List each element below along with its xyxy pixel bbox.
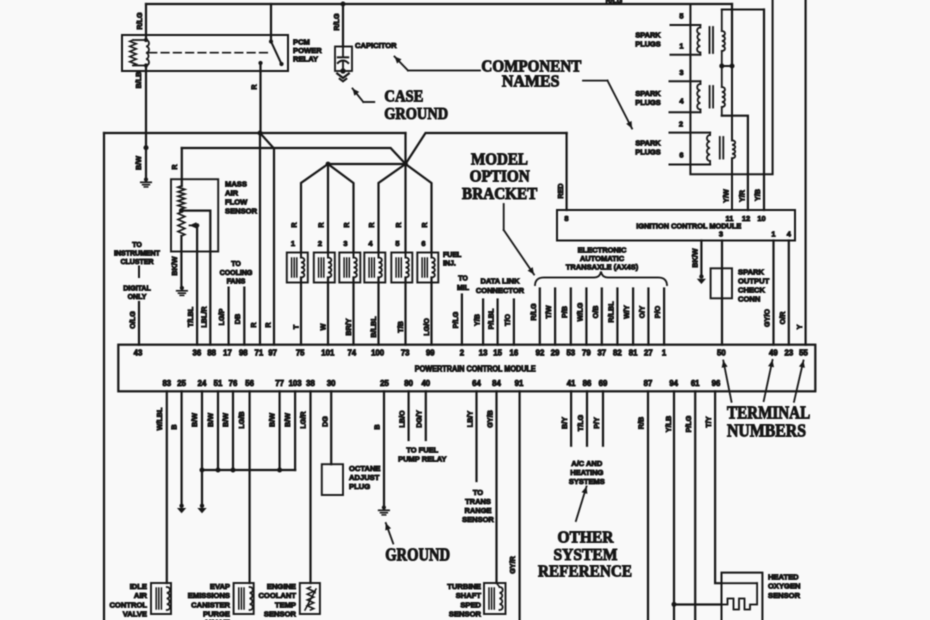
svg-text:40: 40 bbox=[421, 379, 430, 388]
label R relay output bbox=[250, 84, 259, 90]
label SPARK PLUGS 3 bbox=[635, 139, 661, 157]
svg-text:TO: TO bbox=[132, 242, 142, 249]
label T bbox=[292, 324, 301, 329]
label T/LG bbox=[576, 414, 585, 431]
label R injector 1 bbox=[290, 222, 299, 228]
label TO MIL bbox=[457, 276, 470, 292]
svg-text:79: 79 bbox=[582, 349, 591, 358]
svg-text:Y: Y bbox=[795, 324, 804, 329]
label SPARK PLUGS 1 bbox=[635, 31, 661, 49]
label 2 bbox=[679, 119, 683, 128]
svg-text:82: 82 bbox=[613, 349, 622, 358]
label SPARK PLUGS 2 bbox=[635, 89, 661, 107]
wire BK/W MAF to ground bbox=[180, 236, 182, 288]
wire W/Y transaxle to PCM bbox=[632, 289, 634, 345]
label CAPICITOR bbox=[355, 41, 397, 50]
svg-text:R: R bbox=[367, 222, 376, 228]
label R MAF bbox=[170, 164, 179, 170]
svg-text:MIL: MIL bbox=[457, 285, 470, 292]
svg-text:A/C AND: A/C AND bbox=[571, 459, 603, 468]
svg-text:64: 64 bbox=[472, 379, 481, 388]
svg-text:1: 1 bbox=[771, 229, 775, 238]
MAF sensor box bbox=[171, 179, 218, 251]
octane adjust plug box bbox=[322, 464, 343, 495]
svg-text:5: 5 bbox=[395, 239, 399, 248]
ground MAF ground bbox=[177, 286, 187, 296]
svg-text:94: 94 bbox=[669, 379, 678, 388]
svg-text:FANS: FANS bbox=[227, 279, 246, 286]
label SPARK OUTPUT CHECK CONN bbox=[738, 268, 770, 304]
svg-text:PLUG: PLUG bbox=[349, 482, 370, 491]
svg-text:SPARK: SPARK bbox=[738, 268, 765, 277]
svg-text:NUMBERS: NUMBERS bbox=[727, 421, 806, 441]
svg-text:15: 15 bbox=[493, 349, 502, 358]
svg-text:P/B: P/B bbox=[560, 306, 569, 318]
svg-text:P/O: P/O bbox=[653, 305, 662, 318]
annotation GROUND bbox=[385, 545, 450, 565]
wire P/LBL to PCM 15 bbox=[497, 300, 499, 345]
svg-text:56: 56 bbox=[245, 379, 254, 388]
svg-text:SPARK: SPARK bbox=[635, 89, 661, 98]
svg-text:ADJUST: ADJUST bbox=[349, 473, 380, 482]
svg-text:3: 3 bbox=[343, 239, 347, 248]
label R/B bbox=[637, 417, 646, 429]
wire B/W PCM 103 bbox=[294, 391, 296, 470]
svg-text:CLUSTER: CLUSTER bbox=[120, 259, 153, 266]
svg-text:88: 88 bbox=[207, 349, 216, 358]
label R/LG relay coil wire bbox=[135, 12, 144, 30]
svg-text:OCTANE: OCTANE bbox=[349, 464, 381, 473]
wire ICM pin 3 to PCM 50 bbox=[721, 241, 723, 345]
svg-text:TERMINAL: TERMINAL bbox=[727, 402, 810, 422]
wire R MAF feed bbox=[182, 148, 406, 164]
EVAP solenoid bbox=[239, 587, 253, 610]
label HEATED OXYGEN SENSOR bbox=[768, 573, 801, 600]
fuel injector 4 solenoid bbox=[369, 258, 382, 278]
svg-text:77: 77 bbox=[275, 379, 284, 388]
label LBL/R bbox=[200, 306, 209, 328]
svg-text:W/Y: W/Y bbox=[622, 305, 631, 319]
svg-text:T/Y: T/Y bbox=[704, 416, 713, 427]
svg-text:AIR: AIR bbox=[225, 189, 239, 198]
svg-text:3: 3 bbox=[719, 229, 723, 238]
HO2S heater element bbox=[722, 583, 758, 609]
idle air control valve box bbox=[151, 583, 171, 614]
svg-text:DB: DB bbox=[233, 314, 242, 324]
svg-text:11: 11 bbox=[726, 214, 734, 223]
svg-text:DATA LINK: DATA LINK bbox=[480, 277, 520, 286]
svg-text:2: 2 bbox=[318, 239, 322, 248]
svg-text:61: 61 bbox=[691, 379, 700, 388]
svg-text:T/LG: T/LG bbox=[576, 414, 585, 431]
svg-text:ONLY: ONLY bbox=[128, 294, 147, 301]
svg-text:W/LBL: W/LBL bbox=[155, 407, 164, 430]
svg-text:O/B: O/B bbox=[591, 306, 600, 319]
svg-text:OUTPUT: OUTPUT bbox=[738, 277, 770, 286]
svg-text:R: R bbox=[249, 322, 258, 328]
label P/LG (61) bbox=[684, 415, 693, 432]
spark output check connector box bbox=[711, 268, 732, 298]
label Y/B bbox=[753, 189, 762, 201]
wire GY/R PCM 91 bbox=[518, 391, 520, 620]
svg-text:B/Y: B/Y bbox=[560, 417, 569, 429]
svg-text:SENSOR: SENSOR bbox=[462, 515, 494, 524]
pointer to transaxle brace bbox=[504, 204, 534, 275]
wire O/B transaxle to PCM bbox=[601, 289, 603, 345]
coil 1 primary winding bbox=[697, 25, 700, 55]
label B/LBL bbox=[369, 316, 378, 338]
svg-text:DIGITAL: DIGITAL bbox=[123, 285, 151, 292]
wire Y/B coil secondary to ICM pin 10 bbox=[763, 10, 765, 211]
svg-text:TO FUEL: TO FUEL bbox=[406, 446, 438, 455]
svg-text:P/LBL: P/LBL bbox=[487, 308, 496, 329]
svg-text:73: 73 bbox=[401, 349, 410, 358]
svg-text:B/W: B/W bbox=[268, 413, 277, 427]
svg-text:FUEL: FUEL bbox=[443, 252, 462, 259]
svg-text:LG/R: LG/R bbox=[299, 411, 308, 429]
wire R/B PCM 87 bbox=[647, 391, 649, 620]
svg-text:HEATING: HEATING bbox=[570, 468, 603, 477]
label Y/LB bbox=[664, 416, 673, 432]
label DATA LINK CONNECTOR bbox=[476, 277, 525, 295]
svg-text:2: 2 bbox=[460, 349, 465, 358]
label 12 bbox=[742, 214, 750, 223]
label B/W (76) bbox=[221, 413, 230, 427]
svg-text:83: 83 bbox=[162, 379, 171, 388]
fuel injector 6 box bbox=[417, 253, 438, 283]
label IDLE AIR CONTROL VALVE bbox=[109, 582, 147, 619]
wire O/Y transaxle to PCM bbox=[647, 289, 649, 345]
ignition control module U1 box bbox=[557, 210, 795, 241]
wire R relay output bbox=[259, 63, 261, 133]
svg-text:99: 99 bbox=[426, 349, 435, 358]
label R injector 6 bbox=[420, 222, 429, 228]
svg-text:41: 41 bbox=[567, 379, 576, 388]
node coil bus junction right bbox=[730, 64, 735, 69]
spark plug stub 4 bbox=[670, 111, 701, 113]
label P/LBL bbox=[487, 308, 496, 329]
label 3 ICM bbox=[719, 229, 723, 238]
svg-text:13: 13 bbox=[479, 349, 488, 358]
label 6 bbox=[679, 151, 683, 160]
pointer to terminal 49 bbox=[764, 360, 774, 401]
label R/LG bbox=[529, 303, 538, 321]
svg-text:12: 12 bbox=[742, 214, 750, 223]
svg-text:EMISSIONS: EMISSIONS bbox=[188, 591, 230, 600]
annotation MODEL OPTION BRACKET bbox=[462, 150, 537, 204]
svg-text:75: 75 bbox=[296, 349, 305, 358]
svg-text:ENGINE: ENGINE bbox=[267, 582, 296, 591]
label Y/B (13) bbox=[473, 314, 482, 326]
svg-text:23: 23 bbox=[785, 349, 794, 358]
TSS coil bbox=[489, 583, 503, 610]
transaxle brace bbox=[535, 272, 667, 286]
wire LG/B PCM 56 to EVAP bbox=[249, 391, 251, 583]
annotation COMPONENT NAMES bbox=[481, 57, 581, 91]
label B (25) bbox=[170, 424, 179, 429]
svg-text:AIR: AIR bbox=[134, 591, 148, 600]
label O/B bbox=[591, 306, 600, 319]
label LB/Y bbox=[466, 411, 475, 428]
svg-text:B/W: B/W bbox=[283, 413, 292, 427]
wire P/B transaxle to PCM bbox=[570, 289, 572, 345]
label R injector 3 bbox=[342, 222, 351, 228]
svg-text:Y/LB: Y/LB bbox=[664, 416, 673, 432]
wire T/LBL MAF wiper to PCM 36 bbox=[196, 225, 198, 344]
wire DG PCM 30 to octane plug bbox=[330, 391, 332, 464]
heated oxygen sensor box bbox=[722, 573, 763, 620]
label TO FUEL PUMP RELAY bbox=[398, 446, 446, 464]
fuel injector 1 box bbox=[287, 253, 308, 283]
label 4 injector number bbox=[368, 239, 373, 248]
ground arrow ICM bbox=[697, 274, 706, 284]
wire LB/Y PCM 64 bbox=[475, 391, 477, 481]
label RED bbox=[556, 183, 565, 198]
ground capacitor case ground bbox=[337, 74, 349, 82]
svg-text:PLUGS: PLUGS bbox=[635, 148, 661, 157]
svg-text:B/LB: B/LB bbox=[134, 72, 143, 89]
svg-text:T/LBL: T/LBL bbox=[186, 306, 195, 327]
wire injector 2 feed bbox=[327, 164, 329, 253]
svg-text:FLOW: FLOW bbox=[225, 198, 248, 207]
coil 1 core bbox=[710, 27, 714, 53]
svg-text:80: 80 bbox=[404, 379, 413, 388]
svg-text:LG/P: LG/P bbox=[217, 308, 226, 325]
svg-text:SPARK: SPARK bbox=[635, 139, 661, 148]
svg-text:OTHER: OTHER bbox=[558, 528, 615, 547]
pointer to A/C systems bbox=[576, 487, 588, 522]
fuel injector 3 solenoid bbox=[344, 258, 357, 278]
wire relay switch common bbox=[270, 4, 272, 42]
wire P/LG to PCM 2 bbox=[461, 295, 463, 345]
wire B/LB relay coil to ground bbox=[144, 66, 149, 180]
label 6 injector number bbox=[421, 239, 425, 248]
svg-text:50: 50 bbox=[717, 349, 726, 358]
svg-text:TEMP: TEMP bbox=[275, 600, 296, 609]
label 8 bbox=[564, 214, 568, 223]
wire B/LBL injector 4 to PCM bbox=[378, 253, 380, 345]
svg-text:DG/Y: DG/Y bbox=[415, 410, 424, 428]
svg-text:53: 53 bbox=[566, 349, 575, 358]
svg-text:GY/O: GY/O bbox=[763, 309, 772, 327]
node injector 1-3 junction bbox=[326, 162, 331, 167]
label W bbox=[319, 323, 328, 330]
svg-text:GROUND: GROUND bbox=[384, 104, 448, 123]
svg-text:B: B bbox=[170, 424, 179, 429]
fuel injector 4 box bbox=[364, 253, 385, 283]
svg-text:IGNITION CONTROL MODULE: IGNITION CONTROL MODULE bbox=[636, 222, 741, 231]
label B/W (51) bbox=[206, 413, 215, 427]
label TURBINE SHAFT SPED SENSOR bbox=[447, 582, 481, 619]
label MASS AIR FLOW SENSOR bbox=[225, 180, 258, 216]
label O/LG bbox=[128, 311, 137, 329]
svg-text:B/W: B/W bbox=[221, 413, 230, 427]
svg-text:8: 8 bbox=[564, 214, 568, 223]
wire Y to PCM 55 bbox=[804, 0, 806, 345]
relay switch blade bbox=[269, 39, 284, 66]
fuel injector 5 box bbox=[391, 253, 412, 283]
label P/Y bbox=[592, 417, 601, 429]
wire R/LG transaxle to PCM bbox=[539, 289, 541, 345]
wire R/LBL transaxle to PCM bbox=[616, 289, 618, 345]
label R injector 2 bbox=[317, 222, 326, 228]
label B (25b) bbox=[373, 424, 382, 429]
powertrain control module U2 box bbox=[118, 345, 815, 392]
svg-text:R: R bbox=[317, 222, 326, 228]
wire T/Y PCM 96 to HO2S bbox=[715, 391, 721, 583]
wire P/LG PCM 61 bbox=[694, 391, 696, 620]
node coil bus junction left bbox=[719, 64, 724, 69]
svg-text:CASE: CASE bbox=[384, 87, 423, 106]
wire P/O transaxle to PCM bbox=[663, 289, 665, 345]
label DIGITAL ONLY bbox=[123, 285, 151, 301]
svg-text:R/LG: R/LG bbox=[135, 12, 144, 30]
label LG/P bbox=[217, 308, 226, 325]
labels PCM top terminal numbers bbox=[134, 349, 809, 358]
labels PCM bottom terminal numbers bbox=[162, 379, 721, 388]
wire DG/Y PCM 40 bbox=[425, 391, 427, 440]
svg-text:29: 29 bbox=[551, 349, 560, 358]
svg-text:B/W: B/W bbox=[206, 413, 215, 427]
svg-text:W: W bbox=[319, 323, 328, 330]
wire W/LBL PCM 83 to IAC bbox=[166, 391, 168, 583]
wire T/O to PCM 16 bbox=[513, 300, 515, 345]
svg-text:SENSOR: SENSOR bbox=[449, 610, 482, 619]
svg-text:86: 86 bbox=[583, 379, 592, 388]
svg-text:TRANSAXLE (AX4S): TRANSAXLE (AX4S) bbox=[566, 262, 639, 271]
wire R to PCM 97 bbox=[260, 133, 274, 345]
ground arrow 25 bbox=[177, 504, 186, 514]
svg-text:16: 16 bbox=[510, 349, 519, 358]
wire O/LG to PCM 43 bbox=[138, 302, 140, 345]
svg-text:T/B: T/B bbox=[396, 321, 405, 333]
label PCM POWER RELAY bbox=[293, 38, 322, 64]
wire stub instrument bbox=[138, 267, 140, 278]
svg-text:BRACKET: BRACKET bbox=[462, 184, 537, 203]
annotation OTHER SYSTEM REFERENCE bbox=[538, 528, 632, 581]
label 3 bbox=[679, 68, 683, 77]
svg-text:RANGE: RANGE bbox=[464, 506, 491, 515]
evap canister purge valve box bbox=[234, 583, 254, 614]
label A/C AND HEATING SYSTEMS bbox=[569, 459, 605, 486]
svg-text:R/LG: R/LG bbox=[332, 13, 341, 31]
svg-text:CONNECTOR: CONNECTOR bbox=[476, 286, 525, 295]
wire B/W PCM 77 bbox=[277, 391, 282, 472]
label OCTANE ADJUST PLUG bbox=[349, 464, 381, 491]
fuel injector 3 box bbox=[339, 253, 360, 283]
label B/W (77) bbox=[268, 413, 277, 427]
wire B/W PCM 51 bbox=[216, 391, 221, 472]
label 2 injector number bbox=[318, 239, 322, 248]
svg-text:GY/R: GY/R bbox=[508, 555, 517, 573]
label T/LBL bbox=[186, 306, 195, 327]
svg-text:96: 96 bbox=[712, 379, 721, 388]
svg-text:R/LG: R/LG bbox=[529, 303, 538, 321]
svg-text:BK/W: BK/W bbox=[170, 256, 179, 275]
label R (97) bbox=[264, 322, 273, 328]
label 1 bbox=[679, 41, 683, 50]
svg-text:TURBINE: TURBINE bbox=[447, 582, 481, 591]
coil 2 primary winding bbox=[697, 81, 700, 112]
svg-text:TO: TO bbox=[473, 488, 483, 497]
label 4 ICM bbox=[787, 229, 792, 238]
label ELECTRONIC AUTOMATIC TRANSAXLE (AX4S) bbox=[566, 245, 639, 271]
svg-text:SENSOR: SENSOR bbox=[768, 591, 801, 600]
svg-text:RED: RED bbox=[556, 183, 565, 198]
pointer to SPARK PLUGS bbox=[583, 81, 632, 129]
svg-text:OXYGEN: OXYGEN bbox=[768, 582, 801, 591]
MAF resistor upper bbox=[178, 186, 185, 209]
wire LG/P to PCM 17 bbox=[228, 288, 230, 345]
label R/LBL bbox=[606, 301, 615, 323]
svg-text:LG/O: LG/O bbox=[422, 318, 431, 336]
svg-text:38: 38 bbox=[306, 379, 315, 388]
svg-text:T/O: T/O bbox=[503, 314, 512, 326]
svg-text:37: 37 bbox=[597, 349, 606, 358]
wire injector 5 feed bbox=[404, 164, 406, 253]
label T/Y bbox=[704, 416, 713, 427]
wire RED to ICM pin 8 bbox=[565, 133, 567, 210]
svg-text:1: 1 bbox=[679, 41, 683, 50]
svg-text:36: 36 bbox=[193, 349, 202, 358]
svg-text:GROUND: GROUND bbox=[385, 545, 450, 565]
svg-text:17: 17 bbox=[223, 349, 232, 358]
svg-text:P/Y: P/Y bbox=[592, 417, 601, 429]
wire Y/LB PCM 94 bbox=[672, 391, 677, 620]
svg-text:LG/B: LG/B bbox=[237, 411, 246, 428]
MAF resistor lower bbox=[178, 212, 185, 236]
label BR/Y bbox=[344, 318, 353, 335]
wire coil bus link bbox=[722, 65, 732, 67]
svg-text:IDLE: IDLE bbox=[130, 582, 147, 591]
svg-text:CANISTER: CANISTER bbox=[191, 600, 230, 609]
svg-text:49: 49 bbox=[769, 349, 778, 358]
node X junction bbox=[403, 162, 408, 167]
wire T/W transaxle to PCM bbox=[554, 289, 556, 345]
annotation CASE GROUND bbox=[384, 87, 448, 124]
svg-text:CONN: CONN bbox=[738, 295, 760, 304]
svg-text:P/LG: P/LG bbox=[684, 415, 693, 432]
node relay R junction bbox=[258, 131, 263, 136]
svg-text:24: 24 bbox=[198, 379, 207, 388]
svg-text:Y/W: Y/W bbox=[722, 189, 731, 203]
svg-text:R/LG: R/LG bbox=[606, 0, 623, 5]
wire R into MAF bbox=[181, 148, 183, 186]
label R injector 5 bbox=[394, 222, 403, 228]
label TO TRANS RANGE SENSOR bbox=[462, 488, 494, 524]
svg-text:PLUGS: PLUGS bbox=[635, 98, 661, 107]
label B/W (103) bbox=[283, 413, 292, 427]
coil 1 secondary winding bbox=[722, 10, 725, 67]
svg-text:O/LG: O/LG bbox=[128, 311, 137, 329]
capacitor C1 box bbox=[335, 47, 352, 72]
label LG/R bbox=[299, 411, 308, 429]
wire LB/O PCM 80 bbox=[408, 391, 410, 440]
svg-text:87: 87 bbox=[644, 379, 653, 388]
wire R bus into X junction bbox=[404, 133, 406, 164]
svg-text:MASS: MASS bbox=[225, 180, 247, 189]
turbine shaft speed sensor box bbox=[484, 583, 506, 614]
node rail-capacitor junction bbox=[341, 2, 346, 7]
label 1 injector number bbox=[291, 239, 295, 248]
HO2S internal top line bbox=[722, 582, 758, 584]
label 10 bbox=[757, 214, 765, 223]
relay switch output contact bbox=[258, 61, 262, 65]
svg-text:SPED: SPED bbox=[460, 600, 481, 609]
svg-text:CHECK: CHECK bbox=[738, 286, 766, 295]
label B/LB bbox=[134, 72, 143, 89]
svg-text:69: 69 bbox=[599, 379, 608, 388]
